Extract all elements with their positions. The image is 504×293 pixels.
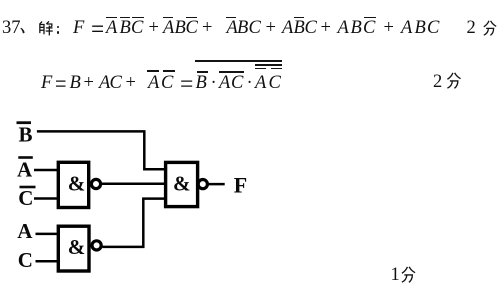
node Abar label [17,157,33,181]
svg-text:A: A [17,219,33,243]
Chinese character JIE (solution) [38,21,53,36]
overline of Cbar label [20,186,36,189]
overline of Abar label [18,156,33,159]
dot [247,74,253,93]
NAND gate U2 output bubble [92,241,101,250]
svg-text:&: & [68,172,86,196]
term 5: A B Cbar [338,19,349,38]
NAND gate U3 output bubble [198,180,207,189]
Chinese character FEN line 1 [483,20,497,36]
overline of Bbar label [17,121,32,124]
term 2: Abar B Cbar [163,19,174,38]
score 1 fen bottom [391,266,400,285]
wire A to U2 input [36,233,59,236]
svg-text:C: C [18,186,33,210]
outer overline of RHS [195,60,282,62]
node F output label [234,172,247,197]
wire Bbar from label to U3 top input [37,131,166,169]
wire U1 output to U3 middle input [101,183,166,186]
wire Abar to U1 input [34,169,58,172]
score 2 fen line 1 [467,19,476,38]
Chinese character FEN line 2 [446,72,462,89]
NAND gate U3 ampersand [173,172,191,196]
NAND gate U3 body [166,162,198,206]
ideographic comma [19,27,27,35]
svg-text:B: B [19,122,33,146]
NAND gate U1 output bubble [91,179,100,188]
term 1: Abar Bbar Cbar [106,19,117,38]
node Cbar label [18,186,33,210]
overline(Abar Cbar) [255,74,266,93]
svg-text:C: C [18,248,33,272]
wire U2 output up to U3 bottom input [103,199,166,247]
term 6: A B C [401,19,412,38]
overline(AC) [219,74,230,93]
equation line 1: problem number [2,19,21,38]
NAND gate U2 ampersand [68,235,86,259]
NAND gate U2 body [58,226,89,271]
dot [211,74,217,93]
term 4: A Bbar C [282,19,293,38]
node C label [18,248,33,272]
Bbar [196,74,207,93]
wire Cbar to U1 input [34,197,58,200]
equation line 2: F = B + AC + AbarCbar = overline(...) [41,74,52,93]
NAND gate U1 ampersand [68,172,86,196]
term 3: Abar B C [227,19,238,38]
F = [73,19,84,38]
score 2 fen line 2 [433,73,442,92]
svg-text:&: & [173,172,191,196]
Chinese character FEN bottom [401,266,416,283]
svg-text:&: & [68,235,86,259]
wire C to U2 input [36,260,59,263]
NAND gate U1 body [58,162,88,207]
wire U3 output to F [208,183,225,186]
svg-text:A: A [17,157,33,181]
node A label [17,219,33,243]
fullwidth colon [57,26,60,29]
svg-text:F: F [234,172,247,197]
node Bbar label [19,122,33,146]
